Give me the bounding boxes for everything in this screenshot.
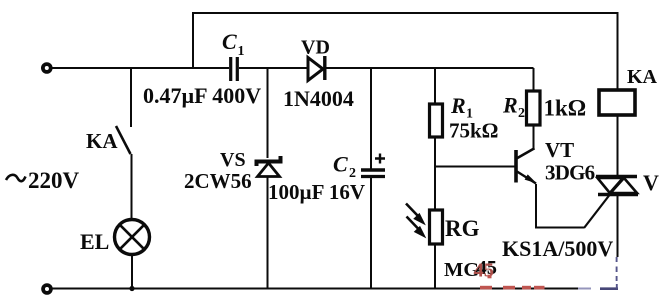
terminal top-left bbox=[43, 64, 51, 72]
relay coil KA bbox=[599, 90, 635, 115]
wire C2 to rail bbox=[370, 178, 372, 289]
svg-text:75kΩ: 75kΩ bbox=[449, 119, 499, 143]
svg-text:R: R bbox=[450, 93, 466, 118]
wire triac gate diagonal bbox=[584, 178, 623, 229]
transistor VT bbox=[514, 150, 518, 183]
wire top loop bbox=[193, 13, 618, 90]
triac V bbox=[596, 175, 637, 178]
svg-text:V: V bbox=[643, 170, 659, 195]
svg-text:VS: VS bbox=[220, 149, 246, 171]
resistor R2 bbox=[527, 91, 541, 125]
svg-text:1: 1 bbox=[238, 44, 245, 59]
wire main horizontal right of VD bbox=[327, 67, 534, 69]
svg-text:0.47µF 400V: 0.47µF 400V bbox=[143, 83, 261, 108]
wire emitter down and right bbox=[536, 184, 584, 228]
capacitor C2 bbox=[361, 168, 385, 172]
wire lamp to rail bbox=[131, 255, 133, 289]
svg-text:C: C bbox=[222, 29, 237, 54]
capacitor C1 bbox=[229, 57, 232, 81]
wire R2 to collector bbox=[533, 125, 535, 149]
svg-text:1N4004: 1N4004 bbox=[283, 86, 354, 111]
source ~220V bbox=[6, 175, 26, 181]
diode VD bbox=[308, 58, 323, 81]
terminal bottom-left bbox=[43, 285, 51, 293]
switch KA bbox=[116, 126, 131, 154]
wire RG to rail bbox=[434, 244, 436, 289]
wire switch to lamp bbox=[131, 154, 133, 219]
resistor R1 bbox=[430, 104, 443, 137]
svg-text:2: 2 bbox=[349, 166, 356, 181]
wire branch zener top bbox=[267, 68, 269, 158]
wire coil to triac bbox=[617, 115, 619, 175]
photoresistor RG bbox=[430, 210, 443, 244]
svg-text:EL: EL bbox=[80, 229, 109, 254]
svg-text:VD: VD bbox=[301, 37, 330, 59]
svg-text:220V: 220V bbox=[28, 168, 80, 193]
svg-text:1kΩ: 1kΩ bbox=[544, 96, 587, 121]
wire main horizontal left of C1 bbox=[51, 67, 230, 69]
watermark red dashes bbox=[480, 277, 545, 288]
wire branch R1 top bbox=[434, 68, 436, 104]
wire between C1 and VD bbox=[239, 67, 308, 69]
svg-text:KS1A/500V: KS1A/500V bbox=[502, 236, 613, 261]
wire branch to switch bbox=[130, 68, 132, 127]
svg-text:C: C bbox=[333, 152, 348, 177]
svg-text:KA: KA bbox=[627, 66, 658, 88]
svg-text:RG: RG bbox=[445, 216, 480, 241]
junction dot bbox=[129, 286, 134, 291]
wire zener to rail bbox=[267, 178, 269, 289]
svg-text:2CW56: 2CW56 bbox=[184, 169, 252, 193]
svg-text:R: R bbox=[502, 93, 518, 118]
wire bottom rail bbox=[52, 288, 581, 290]
svg-text:KA: KA bbox=[86, 129, 118, 153]
wire triac to bottom rail bbox=[617, 196, 619, 257]
lamp EL bbox=[115, 220, 150, 255]
zener VS bbox=[257, 156, 281, 166]
svg-text:VT: VT bbox=[545, 138, 574, 162]
svg-text:100µF 16V: 100µF 16V bbox=[268, 180, 365, 204]
wire base bbox=[435, 166, 515, 168]
svg-text:2: 2 bbox=[518, 106, 525, 121]
wire branch R2 top bbox=[533, 68, 535, 91]
watermark blue dashes bbox=[578, 257, 618, 289]
svg-text:3DG6: 3DG6 bbox=[545, 161, 595, 185]
wire branch C2 top bbox=[370, 68, 372, 169]
wire R1 to RG bbox=[434, 137, 436, 210]
